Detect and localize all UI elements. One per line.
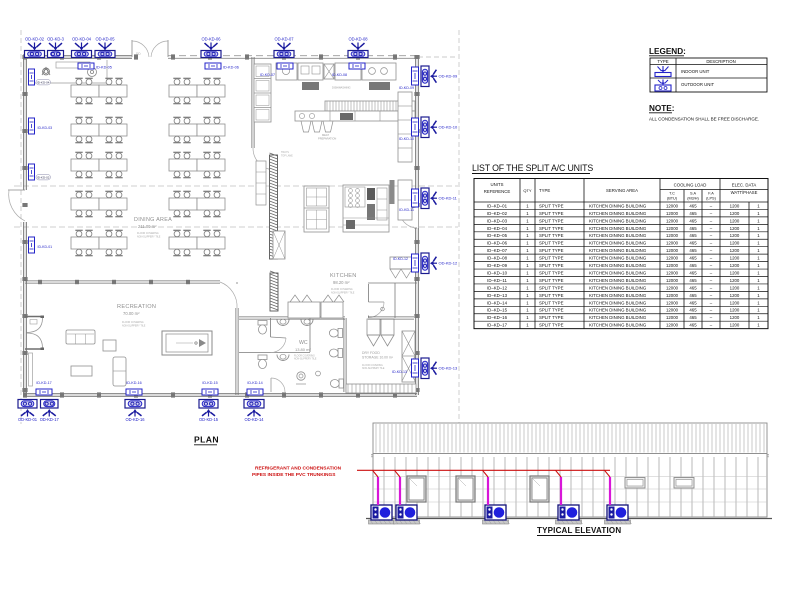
svg-text:ID-KD-15: ID-KD-15 xyxy=(202,381,217,385)
svg-text:1200: 1200 xyxy=(730,263,740,268)
svg-text:SPLIT TYPE: SPLIT TYPE xyxy=(539,248,564,253)
svg-text:ID–KD–13: ID–KD–13 xyxy=(487,293,508,298)
svg-text:465: 465 xyxy=(689,263,697,268)
svg-text:OD-KD-17: OD-KD-17 xyxy=(40,417,60,422)
svg-text:ID-KD-04: ID-KD-04 xyxy=(37,81,50,85)
svg-text:KITCHEN DINING BUILDING: KITCHEN DINING BUILDING xyxy=(589,270,647,275)
svg-text:13.80 m²: 13.80 m² xyxy=(295,347,311,352)
svg-text:NON-SLIPPERY TILE: NON-SLIPPERY TILE xyxy=(137,235,161,238)
svg-text:ID–KD–10: ID–KD–10 xyxy=(487,270,508,275)
svg-text:SPLIT TYPE: SPLIT TYPE xyxy=(539,211,564,216)
svg-text:1200: 1200 xyxy=(730,270,740,275)
svg-text:F.A: F.A xyxy=(708,192,714,196)
svg-text:ID-KD-03: ID-KD-03 xyxy=(38,126,53,130)
svg-text:SERVING AREA: SERVING AREA xyxy=(606,188,638,193)
svg-text:465: 465 xyxy=(689,293,697,298)
svg-text:465: 465 xyxy=(689,256,697,261)
svg-text:465: 465 xyxy=(689,203,697,208)
svg-text:RECREATION: RECREATION xyxy=(117,304,156,310)
svg-text:1200: 1200 xyxy=(730,248,740,253)
svg-text:ID-KD-06: ID-KD-06 xyxy=(223,66,239,70)
svg-text:KITCHEN DINING BUILDING: KITCHEN DINING BUILDING xyxy=(589,293,647,298)
svg-text:ID-KD-07: ID-KD-07 xyxy=(260,73,275,77)
svg-text:KITCHEN: KITCHEN xyxy=(330,273,357,279)
svg-text:211.00 m²: 211.00 m² xyxy=(138,224,157,229)
svg-text:TYPE: TYPE xyxy=(539,188,550,193)
svg-text:1200: 1200 xyxy=(730,285,740,290)
svg-text:SPLIT TYPE: SPLIT TYPE xyxy=(539,241,564,246)
svg-text:KITCHEN DINING BUILDING: KITCHEN DINING BUILDING xyxy=(589,278,647,283)
svg-text:REFRIGERANT AND CONDENSATION: REFRIGERANT AND CONDENSATION xyxy=(255,465,342,471)
svg-text:KITCHEN DINING BUILDING: KITCHEN DINING BUILDING xyxy=(589,323,647,328)
svg-text:465: 465 xyxy=(689,270,697,275)
svg-text:ID-KD-01: ID-KD-01 xyxy=(38,245,53,249)
svg-text:SPLIT TYPE: SPLIT TYPE xyxy=(539,270,564,275)
svg-text:DRY FOOD: DRY FOOD xyxy=(362,351,380,355)
svg-text:S.A: S.A xyxy=(690,192,697,196)
svg-text:KITCHEN DINING BUILDING: KITCHEN DINING BUILDING xyxy=(589,233,647,238)
svg-text:12000: 12000 xyxy=(666,203,679,208)
svg-text:12000: 12000 xyxy=(666,248,679,253)
svg-text:OD-KD-09: OD-KD-09 xyxy=(439,74,458,79)
svg-text:ID–KD–14: ID–KD–14 xyxy=(487,300,508,305)
svg-text:DINING AREA: DINING AREA xyxy=(134,217,172,223)
svg-text:SPLIT TYPE: SPLIT TYPE xyxy=(539,293,564,298)
svg-text:OD-KD-06: OD-KD-06 xyxy=(201,36,221,41)
svg-text:(LPS): (LPS) xyxy=(706,197,716,201)
svg-text:NON-SLIPPERY TILE: NON-SLIPPERY TILE xyxy=(362,368,385,370)
svg-text:465: 465 xyxy=(689,323,697,328)
svg-text:1200: 1200 xyxy=(730,323,740,328)
svg-text:TYPICAL ELEVATION: TYPICAL ELEVATION xyxy=(537,526,621,535)
svg-text:1200: 1200 xyxy=(730,256,740,261)
svg-text:12000: 12000 xyxy=(666,308,679,313)
svg-text:ID-KD-11: ID-KD-11 xyxy=(399,208,414,212)
svg-text:12000: 12000 xyxy=(666,315,679,320)
svg-text:INDOOR UNIT: INDOOR UNIT xyxy=(681,69,710,74)
svg-text:SPLIT TYPE: SPLIT TYPE xyxy=(539,300,564,305)
svg-text:SPLIT TYPE: SPLIT TYPE xyxy=(539,203,564,208)
svg-text:SPLIT TYPE: SPLIT TYPE xyxy=(539,218,564,223)
svg-text:OD-KD-04: OD-KD-04 xyxy=(72,36,92,41)
svg-text:465: 465 xyxy=(689,278,697,283)
svg-text:OD-KD-01: OD-KD-01 xyxy=(18,417,38,422)
svg-text:OD-KD-15: OD-KD-15 xyxy=(199,417,219,422)
svg-text:KITCHEN DINING BUILDING: KITCHEN DINING BUILDING xyxy=(589,226,647,231)
svg-text:OD-KD-02: OD-KD-02 xyxy=(25,36,45,41)
svg-text:12000: 12000 xyxy=(666,285,679,290)
svg-text:ID–KD–16: ID–KD–16 xyxy=(487,315,508,320)
svg-text:ID–KD–06: ID–KD–06 xyxy=(487,241,508,246)
svg-text:12000: 12000 xyxy=(666,241,679,246)
svg-text:98.20 m²: 98.20 m² xyxy=(333,280,350,285)
svg-text:465: 465 xyxy=(689,248,697,253)
svg-text:ID–KD–12: ID–KD–12 xyxy=(487,285,508,290)
svg-text:ID-KD-09: ID-KD-09 xyxy=(399,86,414,90)
svg-text:SPLIT TYPE: SPLIT TYPE xyxy=(539,308,564,313)
svg-text:OD-KD-13: OD-KD-13 xyxy=(439,366,458,371)
svg-text:LEGEND:: LEGEND: xyxy=(649,47,686,56)
svg-text:KITCHEN DINING BUILDING: KITCHEN DINING BUILDING xyxy=(589,315,647,320)
svg-text:ID–KD–03: ID–KD–03 xyxy=(487,218,508,223)
svg-text:OD-KD-16: OD-KD-16 xyxy=(125,417,145,422)
svg-text:SPLIT TYPE: SPLIT TYPE xyxy=(539,285,564,290)
svg-text:T.C: T.C xyxy=(669,192,675,196)
svg-text:NON-SLIPPERY TILE: NON-SLIPPERY TILE xyxy=(331,291,355,294)
svg-text:LIST OF THE SPLIT A/C UNITS: LIST OF THE SPLIT A/C UNITS xyxy=(472,163,593,173)
svg-text:KITCHEN DINING BUILDING: KITCHEN DINING BUILDING xyxy=(589,218,647,223)
svg-text:SPLIT TYPE: SPLIT TYPE xyxy=(539,278,564,283)
svg-text:KITCHEN DINING BUILDING: KITCHEN DINING BUILDING xyxy=(589,300,647,305)
svg-text:KITCHEN DINING BUILDING: KITCHEN DINING BUILDING xyxy=(589,256,647,261)
svg-text:FLOOR COVERING: FLOOR COVERING xyxy=(362,365,383,367)
svg-text:NON-SLIPPERY TILE: NON-SLIPPERY TILE xyxy=(122,324,146,327)
svg-text:DESCRIPTION: DESCRIPTION xyxy=(706,59,735,64)
svg-text:1200: 1200 xyxy=(730,308,740,313)
svg-text:465: 465 xyxy=(689,315,697,320)
svg-text:1200: 1200 xyxy=(730,226,740,231)
svg-text:1200: 1200 xyxy=(730,218,740,223)
svg-text:ID–KD–05: ID–KD–05 xyxy=(487,233,508,238)
svg-text:ID-KD-05: ID-KD-05 xyxy=(96,66,112,70)
svg-text:465: 465 xyxy=(689,218,697,223)
svg-text:ID–KD–08: ID–KD–08 xyxy=(487,256,508,261)
svg-text:OD-KD-10: OD-KD-10 xyxy=(439,125,458,130)
svg-text:12000: 12000 xyxy=(666,263,679,268)
svg-text:465: 465 xyxy=(689,233,697,238)
svg-text:1200: 1200 xyxy=(730,300,740,305)
svg-text:ID-KD-17: ID-KD-17 xyxy=(36,381,51,385)
svg-text:12000: 12000 xyxy=(666,218,679,223)
svg-text:ID-KD-16: ID-KD-16 xyxy=(126,381,141,385)
svg-text:DISHWASHING: DISHWASHING xyxy=(332,86,351,90)
svg-text:1200: 1200 xyxy=(730,315,740,320)
svg-text:MEAT: MEAT xyxy=(322,133,329,137)
svg-text:OD-KD-11: OD-KD-11 xyxy=(439,196,458,201)
svg-text:ID–KD–07: ID–KD–07 xyxy=(487,248,508,253)
svg-text:465: 465 xyxy=(689,211,697,216)
svg-text:NOTE:: NOTE: xyxy=(649,104,674,113)
svg-text:KITCHEN DINING BUILDING: KITCHEN DINING BUILDING xyxy=(589,285,647,290)
svg-text:1200: 1200 xyxy=(730,233,740,238)
svg-text:ID–KD–17: ID–KD–17 xyxy=(487,323,508,328)
svg-text:KITCHEN DINING BUILDING: KITCHEN DINING BUILDING xyxy=(589,203,647,208)
svg-text:PIPES INSIDE THE PVC TRUNK: PIPES INSIDE THE PVC TRUNKINGS xyxy=(252,472,336,478)
svg-text:STORAGE 10.00 m²: STORAGE 10.00 m² xyxy=(362,356,394,360)
svg-text:OD-KD-14: OD-KD-14 xyxy=(244,417,264,422)
svg-text:1200: 1200 xyxy=(730,278,740,283)
svg-text:12000: 12000 xyxy=(666,278,679,283)
svg-text:REFERENCE: REFERENCE xyxy=(484,189,511,194)
svg-text:1200: 1200 xyxy=(730,211,740,216)
svg-text:OD-KD-08: OD-KD-08 xyxy=(348,36,368,41)
svg-text:ID-KD-13: ID-KD-13 xyxy=(392,370,407,374)
svg-text:ID–KD–09: ID–KD–09 xyxy=(487,263,508,268)
svg-text:COOLING LOAD: COOLING LOAD xyxy=(674,183,707,188)
svg-text:465: 465 xyxy=(689,241,697,246)
svg-text:SPLIT TYPE: SPLIT TYPE xyxy=(539,263,564,268)
svg-text:QTY: QTY xyxy=(523,188,532,193)
svg-text:ID-KD-08: ID-KD-08 xyxy=(332,73,347,77)
svg-text:ID-KD-02: ID-KD-02 xyxy=(37,176,50,180)
svg-text:KITCHEN DINING BUILDING: KITCHEN DINING BUILDING xyxy=(589,211,647,216)
svg-text:ID-KD-12: ID-KD-12 xyxy=(393,257,408,261)
svg-text:OD-KD-3: OD-KD-3 xyxy=(47,36,65,41)
svg-text:KITCHEN DINING BUILDING: KITCHEN DINING BUILDING xyxy=(589,263,647,268)
svg-text:465: 465 xyxy=(689,285,697,290)
svg-text:SPLIT TYPE: SPLIT TYPE xyxy=(539,315,564,320)
svg-text:12000: 12000 xyxy=(666,226,679,231)
svg-text:PREPARATION: PREPARATION xyxy=(318,136,336,140)
svg-text:12000: 12000 xyxy=(666,256,679,261)
svg-text:12000: 12000 xyxy=(666,300,679,305)
svg-text:12000: 12000 xyxy=(666,233,679,238)
svg-text:(BTU): (BTU) xyxy=(667,197,678,201)
svg-text:UNITS: UNITS xyxy=(491,182,504,187)
svg-text:OUTDOOR UNIT: OUTDOOR UNIT xyxy=(681,82,715,87)
svg-text:1200: 1200 xyxy=(730,241,740,246)
svg-text:12000: 12000 xyxy=(666,323,679,328)
svg-text:ELEC. DATA: ELEC. DATA xyxy=(732,183,757,188)
svg-text:SPLIT TYPE: SPLIT TYPE xyxy=(539,323,564,328)
svg-text:1200: 1200 xyxy=(730,293,740,298)
svg-text:465: 465 xyxy=(689,226,697,231)
svg-text:PLAN: PLAN xyxy=(194,435,219,445)
svg-text:SPLIT TYPE: SPLIT TYPE xyxy=(539,256,564,261)
svg-text:OD-KD-05: OD-KD-05 xyxy=(95,36,115,41)
svg-text:ALL CONDENSATION SHALL BE FREE: ALL CONDENSATION SHALL BE FREE DISCHARGE… xyxy=(649,117,759,122)
svg-text:12000: 12000 xyxy=(666,293,679,298)
svg-text:465: 465 xyxy=(689,308,697,313)
svg-text:KITCHEN DINING BUILDING: KITCHEN DINING BUILDING xyxy=(589,241,647,246)
svg-text:ID-KD-14: ID-KD-14 xyxy=(247,381,262,385)
svg-text:OD-KD-07: OD-KD-07 xyxy=(274,36,294,41)
svg-text:ID–KD–15: ID–KD–15 xyxy=(487,308,508,313)
svg-text:SPLIT TYPE: SPLIT TYPE xyxy=(539,226,564,231)
svg-text:ID–KD–04: ID–KD–04 xyxy=(487,226,508,231)
svg-text:ID–KD–11: ID–KD–11 xyxy=(487,278,507,283)
svg-text:WATT/PHASE: WATT/PHASE xyxy=(731,190,758,195)
svg-text:TOP LANE: TOP LANE xyxy=(281,154,293,157)
svg-text:12000: 12000 xyxy=(666,211,679,216)
svg-text:(M3/H): (M3/H) xyxy=(687,197,699,201)
svg-text:TYPE: TYPE xyxy=(657,59,668,64)
svg-text:ID-KD-10: ID-KD-10 xyxy=(399,137,414,141)
svg-text:KITCHEN DINING BUILDING: KITCHEN DINING BUILDING xyxy=(589,308,647,313)
svg-text:OD-KD-12: OD-KD-12 xyxy=(439,261,458,266)
svg-text:FLOOR COVERING: FLOOR COVERING xyxy=(294,355,315,357)
svg-text:ID–KD–02: ID–KD–02 xyxy=(487,211,508,216)
svg-text:SPLIT TYPE: SPLIT TYPE xyxy=(539,233,564,238)
svg-text:465: 465 xyxy=(689,300,697,305)
svg-text:1200: 1200 xyxy=(730,203,740,208)
svg-text:ID–KD–01: ID–KD–01 xyxy=(487,203,508,208)
svg-text:NON-SLIPPERY TILE: NON-SLIPPERY TILE xyxy=(294,359,317,361)
svg-text:70.00 m²: 70.00 m² xyxy=(123,311,140,316)
svg-text:WC: WC xyxy=(299,340,308,346)
svg-text:KITCHEN DINING BUILDING: KITCHEN DINING BUILDING xyxy=(589,248,647,253)
svg-text:12000: 12000 xyxy=(666,270,679,275)
